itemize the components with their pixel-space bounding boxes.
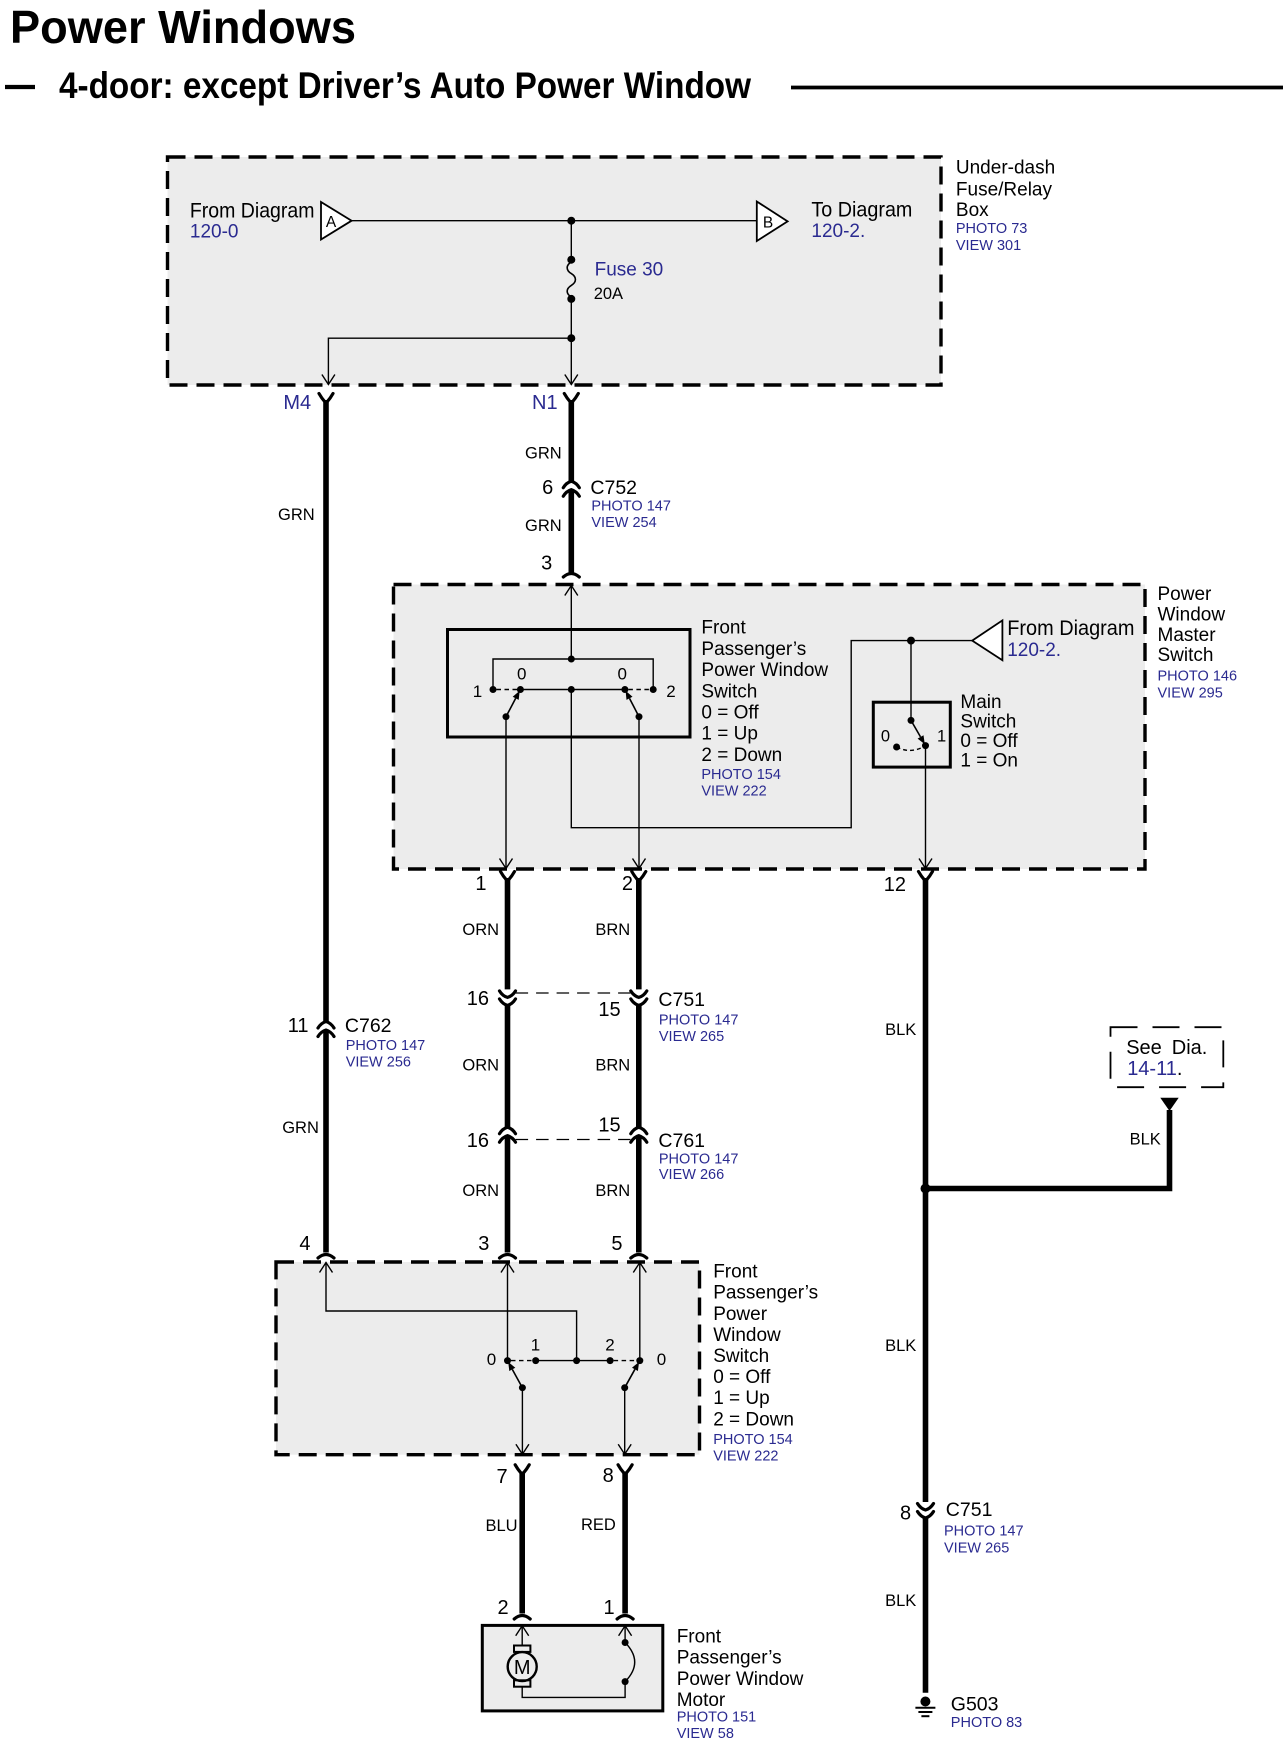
svg-text:ORN: ORN (462, 1057, 499, 1075)
wire: centre rail (lower) (536, 1360, 610, 1362)
svg-text:16: 16 (467, 1130, 489, 1152)
wire: BLK branch to see-dia (926, 1110, 1170, 1189)
svg-text:PHOTO 83: PHOTO 83 (951, 1715, 1022, 1731)
wire: pin 1 to commutator (624, 1626, 626, 1643)
commutator arc (625, 1643, 635, 1682)
node: main switch feed junction (907, 637, 915, 645)
svg-text:2: 2 (666, 682, 675, 701)
svg-text:PHOTO 146: PHOTO 146 (1158, 669, 1238, 685)
box: under-dash fuse/relay box (168, 157, 942, 385)
svg-text:M: M (514, 1657, 531, 1679)
connector: motor pin 1 entry (617, 1616, 633, 1620)
wire: BLK pin12 to junction (919, 872, 933, 881)
svg-text:GRN: GRN (282, 1119, 319, 1137)
label: C752 PHOTO 147 VIEW 254 (590, 477, 671, 531)
svg-text:2: 2 (605, 1336, 614, 1355)
node: left pole 0 (517, 686, 524, 693)
wire: BRN pin2 to C751 (632, 872, 646, 881)
wire: dashed C761 mating line (516, 1139, 631, 1141)
svg-text:BLK: BLK (885, 1021, 916, 1039)
svg-text:0: 0 (618, 665, 627, 684)
svg-text:To Diagram: To Diagram (811, 199, 912, 222)
svg-text:Front: Front (677, 1627, 722, 1648)
svg-text:PHOTO 154: PHOTO 154 (701, 767, 781, 783)
wire: fuse to N1 exit (570, 297, 572, 384)
connector C761 pin 16 (ORN side) (500, 1127, 516, 1134)
svg-text:M4: M4 (283, 392, 311, 414)
svg-text:2: 2 (497, 1597, 508, 1619)
wire: dashed travel arc main switch (897, 746, 926, 751)
wire: pin 5 to right pole (639, 1263, 641, 1361)
box: power window master switch (394, 585, 1146, 870)
arrow: motor pin 2 entry arrow (516, 1626, 529, 1636)
svg-text:BRN: BRN (595, 1057, 630, 1075)
svg-text:16: 16 (467, 988, 489, 1010)
svg-text:14-11.: 14-11. (1127, 1058, 1182, 1080)
svg-text:120-2.: 120-2. (811, 221, 865, 242)
switch arm left (up contact) (506, 698, 516, 716)
svg-text:1: 1 (473, 682, 482, 701)
wire: dashed link 1 to left pole (497, 689, 518, 691)
svg-text:3: 3 (541, 552, 552, 574)
svg-text:BLK: BLK (885, 1592, 916, 1610)
svg-text:15: 15 (598, 999, 620, 1021)
svg-text:Master: Master (1158, 625, 1217, 646)
svg-text:Front: Front (713, 1262, 758, 1283)
node: right pole 0 (621, 686, 628, 693)
wire: branch to M4 exit (328, 338, 571, 384)
svg-text:Power: Power (713, 1304, 768, 1325)
svg-text:C761: C761 (658, 1130, 705, 1152)
svg-text:B: B (763, 214, 773, 231)
switch arm left (lower) (512, 1369, 522, 1387)
box: main switch (873, 702, 950, 767)
svg-text:0 = Off: 0 = Off (713, 1367, 771, 1388)
svg-text:Under-dash: Under-dash (956, 158, 1055, 179)
svg-text:VIEW 295: VIEW 295 (1158, 685, 1223, 701)
connector: pin 5 entry (lower box) (631, 1255, 647, 1259)
arrow: pin 3 entry into master switch (565, 586, 578, 596)
svg-text:Box: Box (956, 200, 989, 221)
svg-text:BRN: BRN (595, 1182, 630, 1200)
svg-text:0 = Off: 0 = Off (701, 703, 759, 724)
wire: ORN pin1 to C751 (501, 872, 515, 881)
arrow: pin 3 entry (501, 1263, 514, 1273)
svg-text:GRN: GRN (525, 444, 562, 462)
connector C761 pin 15 (BRN side) (631, 1127, 647, 1134)
svg-text:PHOTO 73: PHOTO 73 (956, 221, 1027, 237)
connector: pin 3 entry (563, 574, 579, 578)
svg-text:VIEW 222: VIEW 222 (701, 784, 766, 800)
svg-text:Switch: Switch (701, 681, 757, 702)
svg-text:Passenger’s: Passenger’s (701, 639, 806, 660)
label: C751 PHOTO 147 VIEW 265 (ground side) (944, 1499, 1024, 1556)
wire: pin 3 to switch common (570, 586, 572, 660)
svg-text:Passenger’s: Passenger’s (677, 1648, 782, 1669)
switch arm main (to 1) (911, 720, 921, 737)
motor M1: window motor (508, 1626, 537, 1687)
wire: pin 3 to left pole (507, 1263, 509, 1361)
wire: dashed C751 mating line (516, 992, 631, 994)
wire: M4 GRN lower segment (323, 1030, 329, 1253)
arrow: motor pin 1 entry arrow (619, 1626, 632, 1636)
wire: pin 4 feed to centre junction (326, 1263, 577, 1361)
connector C751 pin 16 (ORN side) (500, 991, 516, 998)
svg-text:BLU: BLU (486, 1517, 518, 1535)
svg-text:Switch: Switch (960, 711, 1016, 732)
svg-text:C752: C752 (590, 477, 637, 499)
svg-text:PHOTO 147: PHOTO 147 (659, 1012, 739, 1028)
box: front passenger power window switch (276, 1262, 700, 1455)
label: Under-dash Fuse/Relay Box PHOTO 73 VIEW 301 (956, 158, 1055, 254)
node: terminal 2 (lower) (607, 1357, 614, 1364)
arrow: pin 8 exit (618, 1444, 631, 1454)
node: main contact 1 (922, 742, 929, 749)
svg-text:Motor: Motor (677, 1690, 726, 1711)
wire: motor bottom loop (522, 1682, 625, 1698)
svg-text:Power: Power (1158, 584, 1213, 605)
arrow: pin 4 entry (320, 1263, 333, 1273)
svg-text:1: 1 (475, 873, 486, 895)
connector arrow B (to diagram 120-2) (757, 199, 913, 242)
arrow: M4 exit at box edge (322, 375, 335, 385)
wire: centre rail (520, 689, 625, 691)
wire: dashed link right pole to 2 (628, 689, 649, 691)
svg-text:120-0: 120-0 (190, 222, 239, 243)
connector C752 pin 6 (563, 481, 579, 488)
svg-text:2 = Down: 2 = Down (713, 1409, 794, 1430)
svg-text:C762: C762 (345, 1015, 392, 1037)
wire: left arm to pin 1 exit (505, 717, 507, 869)
node: BLK ground junction (921, 1184, 931, 1194)
wire: BLU pin 7 to motor (515, 1465, 529, 1474)
svg-text:12: 12 (884, 874, 906, 896)
svg-text:15: 15 (598, 1114, 620, 1136)
svg-text:N1: N1 (532, 392, 558, 414)
arrow: pin 7 exit (516, 1444, 529, 1454)
connector arrow A (from diagram 120-0) (190, 200, 352, 243)
svg-text:PHOTO 151: PHOTO 151 (677, 1710, 757, 1726)
wire: left arm to pin 7 exit (521, 1388, 523, 1455)
arrow: N1 exit at box edge (565, 375, 578, 385)
svg-text:From Diagram: From Diagram (190, 200, 315, 223)
svg-text:C751: C751 (946, 1499, 993, 1521)
node: main contact 0 (893, 744, 900, 751)
svg-text:VIEW 266: VIEW 266 (659, 1167, 724, 1183)
node: top rail junction (568, 656, 575, 663)
label: See Dia. 14-11. (1126, 1037, 1207, 1080)
wire: common to interlink (571, 641, 972, 828)
connector: pin 3 entry (lower box) (500, 1255, 516, 1259)
connector: pin 4 entry (318, 1255, 334, 1259)
arrowhead: to see dia 14-11 (1160, 1098, 1178, 1111)
svg-text:G503: G503 (951, 1693, 999, 1715)
box: front passenger power window motor (482, 1625, 663, 1711)
node: fuse top junction (567, 217, 575, 225)
svg-text:Fuse/Relay: Fuse/Relay (956, 180, 1053, 201)
wire: N1 GRN upper segment (564, 394, 578, 403)
arrow: pin 1 exit (500, 859, 513, 869)
connector arrow: from diagram 120-2 (master) (972, 617, 1134, 661)
svg-text:1 = Up: 1 = Up (701, 724, 758, 745)
switch arm right (down contact) (630, 698, 640, 716)
subtitle dash (5, 85, 35, 89)
svg-text:2: 2 (622, 873, 633, 895)
connector C762 pin 11 (318, 1022, 334, 1029)
node: terminal 2 (down) (650, 686, 657, 693)
svg-text:Power Windows: Power Windows (10, 1, 356, 53)
svg-text:8: 8 (603, 1465, 614, 1487)
connector C751 pin 8 (918, 1504, 934, 1511)
node: terminal 1 (up) (490, 686, 497, 693)
box: see dia 14-11 reference (1111, 1027, 1224, 1087)
svg-text:7: 7 (496, 1466, 507, 1488)
svg-text:VIEW 265: VIEW 265 (944, 1540, 1009, 1556)
svg-text:120-2.: 120-2. (1007, 640, 1061, 661)
svg-text:1: 1 (603, 1597, 614, 1619)
arrow: pin 5 entry (633, 1263, 646, 1273)
svg-text:PHOTO 147: PHOTO 147 (659, 1152, 739, 1168)
wire: ORN C761 to pin 3 (505, 1136, 511, 1253)
svg-text:BLK: BLK (1130, 1130, 1161, 1148)
svg-text:Window: Window (713, 1325, 781, 1346)
svg-text:BLK: BLK (885, 1337, 916, 1355)
svg-text:Main: Main (960, 692, 1001, 713)
svg-text:A: A (326, 214, 337, 231)
node: centre common (568, 686, 575, 693)
wire: BRN C751 to C761 (636, 1005, 642, 1127)
node: main switch pivot (908, 717, 915, 724)
svg-text:2 = Down: 2 = Down (701, 745, 782, 766)
svg-text:VIEW 256: VIEW 256 (346, 1055, 411, 1071)
svg-text:1 = Up: 1 = Up (713, 1388, 770, 1409)
node: right pole 0 (lower) (636, 1357, 643, 1364)
connector C751 pin 15 (BRN side) (631, 991, 647, 998)
svg-text:5: 5 (611, 1233, 622, 1255)
arrow: pin 12 exit (919, 859, 932, 869)
wire: junction to fuse (570, 221, 572, 262)
label: Front Passengers Power Window Switch (master) (701, 618, 828, 800)
svg-text:1 = On: 1 = On (960, 751, 1018, 772)
connector: motor pin 2 entry (514, 1616, 530, 1620)
svg-text:20A: 20A (594, 285, 623, 303)
svg-text:ORN: ORN (462, 1182, 499, 1200)
svg-text:1: 1 (937, 728, 946, 746)
wire: feed from A to B (352, 220, 757, 222)
svg-text:0: 0 (657, 1350, 666, 1369)
node: commutator lower (622, 1678, 629, 1685)
subtitle rule (791, 86, 1283, 90)
label: C762 PHOTO 147 VIEW 256 (345, 1015, 425, 1071)
node: left pole 0 (lower) (504, 1357, 511, 1364)
wire: BLK C751 to ground (923, 1518, 929, 1693)
wire: BLK junction to C751 pin 8 (923, 1189, 929, 1503)
node: branch junction (567, 334, 575, 342)
wire: ORN C751 to C761 (505, 1005, 511, 1127)
wire: junction into main switch (910, 641, 912, 721)
svg-text:Window: Window (1158, 604, 1226, 625)
svg-text:6: 6 (542, 477, 553, 499)
svg-text:Power Window: Power Window (701, 660, 828, 681)
svg-text:Passenger’s: Passenger’s (713, 1283, 818, 1304)
ground G503 (915, 1697, 935, 1717)
wire: right arm to pin 2 exit (638, 717, 640, 869)
svg-text:RED: RED (581, 1516, 616, 1534)
svg-text:3: 3 (478, 1233, 489, 1255)
svg-text:See Dia.: See Dia. (1126, 1037, 1207, 1059)
svg-text:Fuse 30: Fuse 30 (595, 260, 664, 281)
switch arm right (lower) (625, 1369, 635, 1387)
svg-text:1: 1 (531, 1336, 540, 1355)
node: centre junction (lower) (573, 1357, 580, 1364)
svg-text:Power Window: Power Window (677, 1669, 804, 1690)
label: Main Switch 0=Off 1=On (960, 692, 1018, 772)
svg-text:4-door: except Driver’s Auto P: 4-door: except Driver’s Auto Power Windo… (59, 65, 751, 106)
wire: N1 GRN lower segment (568, 490, 574, 574)
svg-text:Switch: Switch (713, 1346, 769, 1367)
svg-text:4: 4 (299, 1233, 310, 1255)
label: Front Passengers Power Window Switch (lower) (713, 1262, 818, 1465)
svg-text:PHOTO 147: PHOTO 147 (346, 1038, 426, 1054)
svg-text:C751: C751 (658, 989, 705, 1011)
svg-text:VIEW 222: VIEW 222 (713, 1449, 778, 1465)
svg-text:VIEW 265: VIEW 265 (659, 1029, 724, 1045)
wire: top rail (493, 659, 653, 687)
svg-text:0: 0 (487, 1350, 496, 1369)
svg-text:From Diagram: From Diagram (1007, 617, 1134, 640)
label: Power Window Master Switch PHOTO 146 VIEW 295 (1158, 584, 1238, 701)
label: G503 PHOTO 83 (951, 1693, 1022, 1731)
svg-text:BRN: BRN (595, 921, 630, 939)
svg-text:11: 11 (288, 1015, 309, 1037)
node: commutator upper (622, 1639, 629, 1646)
svg-text:VIEW 301: VIEW 301 (956, 238, 1021, 254)
svg-text:VIEW 254: VIEW 254 (591, 515, 656, 531)
node: terminal 1 (lower) (532, 1357, 539, 1364)
svg-text:Switch: Switch (1158, 645, 1214, 666)
wire: M4 GRN upper segment (319, 394, 333, 403)
svg-text:PHOTO 154: PHOTO 154 (713, 1432, 793, 1448)
svg-text:GRN: GRN (278, 506, 315, 524)
svg-text:0: 0 (517, 665, 526, 684)
label: Front Passengers Power Window Motor (677, 1627, 804, 1742)
arrow: pin 2 exit (633, 859, 646, 869)
svg-text:Front: Front (701, 618, 746, 639)
wire: main switch to pin 12 exit (925, 746, 927, 869)
svg-text:PHOTO 147: PHOTO 147 (944, 1524, 1024, 1540)
svg-text:ORN: ORN (462, 921, 499, 939)
svg-text:PHOTO 147: PHOTO 147 (591, 499, 671, 515)
label: C751 PHOTO 147 VIEW 265 (658, 989, 738, 1045)
box: front passenger switch (in master) (448, 630, 691, 738)
wire: right arm to pin 8 exit (624, 1388, 626, 1455)
wire: RED pin 8 to motor (618, 1465, 632, 1474)
wire: dashed link 2 to right pole (614, 1360, 637, 1362)
svg-text:0 = Off: 0 = Off (960, 731, 1018, 752)
svg-text:8: 8 (900, 1502, 911, 1524)
svg-text:0: 0 (881, 728, 890, 746)
svg-text:VIEW 58: VIEW 58 (677, 1726, 734, 1742)
fuse F30 20A (567, 256, 575, 303)
wire: BRN C761 to pin 5 (636, 1136, 642, 1253)
wire: dashed link left pole to 1 (511, 1360, 532, 1362)
label: C761 PHOTO 147 VIEW 266 (658, 1130, 738, 1183)
svg-text:GRN: GRN (525, 517, 562, 535)
